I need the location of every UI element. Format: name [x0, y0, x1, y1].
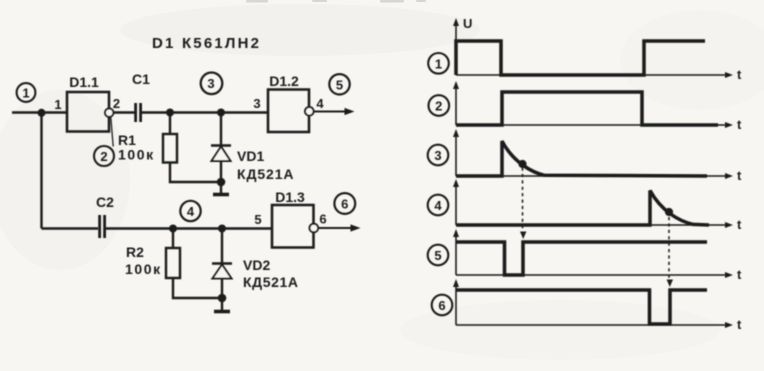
svg-text:5: 5	[254, 212, 261, 227]
wire junction to R2	[172, 229, 174, 249]
svg-text:D1.1: D1.1	[69, 74, 99, 90]
wire junction to R1	[169, 113, 171, 135]
svg-text:КД521А: КД521А	[243, 274, 299, 290]
waveform 1 time axis	[456, 67, 742, 82]
node 5	[329, 74, 349, 94]
svg-text:5: 5	[336, 77, 343, 92]
waveform 3 time axis	[456, 168, 742, 183]
wire gate D1.1 output to C1	[113, 111, 134, 113]
junction VD2 bottom	[218, 294, 227, 303]
waveform 5 time axis	[456, 267, 742, 282]
wire C1 to gate D1.2 input (net 3)	[142, 111, 268, 113]
svg-text:t: t	[737, 67, 742, 82]
capacitor C2	[96, 194, 114, 238]
svg-text:C2: C2	[96, 194, 114, 210]
svg-text:D1.3: D1.3	[275, 189, 305, 205]
svg-text:КД521А: КД521А	[237, 166, 294, 182]
resistor R2	[125, 244, 180, 278]
svg-text:3: 3	[434, 148, 441, 163]
junction VD2 top	[218, 225, 226, 233]
dashed arrow t4 from waveform 4 to waveform 6	[667, 217, 673, 287]
waveform 5 label	[428, 245, 449, 266]
resistor R1	[118, 132, 177, 163]
svg-text:3: 3	[253, 96, 260, 111]
wire C2 to gate D1.3 input (net 4)	[106, 227, 272, 229]
svg-text:2: 2	[100, 149, 107, 164]
svg-text:6: 6	[438, 298, 445, 313]
junction R1 top	[166, 109, 174, 117]
node 6	[334, 193, 355, 214]
svg-text:100к: 100к	[125, 261, 162, 277]
waveform 6 voltage axis	[453, 279, 459, 325]
svg-text:t: t	[737, 267, 742, 282]
wire output D1.3 with arrow (net 6)	[318, 224, 360, 231]
waveform 4 label	[428, 195, 449, 216]
scan smudges top edge	[246, 0, 426, 3]
waveform 6 label	[432, 295, 453, 316]
waveform 2 time axis	[456, 117, 742, 132]
svg-text:R2: R2	[126, 244, 144, 260]
junction input node	[38, 109, 46, 117]
inverter gate D1.3	[272, 189, 318, 248]
wire R2 bottom to VD2 anode	[173, 278, 222, 298]
waveform 4 voltage axis	[453, 179, 459, 225]
ground VD1	[213, 182, 229, 195]
junction R2 top	[169, 225, 177, 233]
waveform 1 voltage axis U	[453, 16, 472, 75]
svg-text:t: t	[737, 217, 742, 232]
svg-text:1: 1	[54, 97, 61, 112]
wire output D1.2 with arrow (net 5)	[314, 108, 355, 115]
waveform 6 time axis	[456, 317, 742, 332]
svg-text:1: 1	[22, 86, 29, 101]
svg-text:1: 1	[435, 56, 442, 71]
wire vertical input branch down to C2	[40, 113, 42, 229]
svg-text:U: U	[463, 16, 472, 31]
waveform 5 trace	[456, 242, 707, 275]
wire lower horizontal (input branch to C2)	[42, 227, 99, 229]
waveform 2 trace	[456, 92, 718, 125]
svg-text:4: 4	[316, 96, 324, 111]
inverter gate D1.2	[268, 73, 314, 132]
dashed arrow t2 from waveform 3 to waveform 5	[520, 168, 526, 240]
diode VD2	[212, 257, 299, 290]
svg-text:2: 2	[435, 99, 442, 114]
svg-text:VD1: VD1	[237, 148, 264, 164]
node 1	[17, 83, 36, 102]
svg-text:C1: C1	[132, 71, 150, 87]
waveform 2 voltage axis	[453, 81, 459, 125]
svg-text:2: 2	[113, 96, 120, 111]
node 3	[201, 73, 223, 95]
svg-text:5: 5	[434, 248, 441, 263]
waveform 6 trace	[456, 290, 707, 324]
svg-text:100к: 100к	[118, 147, 155, 163]
wire VD2 vertical	[221, 229, 223, 299]
waveform 3 trace with exponential decay	[456, 141, 707, 176]
inverter gate D1.1	[67, 74, 113, 132]
wire input to gate D1.1	[12, 111, 67, 113]
wire VD1 vertical	[220, 113, 222, 183]
waveform 4 trace with exponential decay	[456, 191, 709, 226]
node 2	[94, 118, 114, 167]
svg-text:6: 6	[319, 212, 326, 227]
diode VD1	[211, 146, 294, 183]
svg-text:t: t	[737, 117, 742, 132]
svg-text:VD2: VD2	[243, 257, 270, 273]
waveform 5 voltage axis	[453, 229, 459, 275]
waveform 3 sample dot	[518, 160, 526, 168]
node 4	[180, 201, 200, 221]
waveform 1 label	[428, 53, 449, 74]
junction VD1 top	[217, 109, 225, 117]
capacitor C1	[132, 71, 150, 122]
waveform 4 time axis	[456, 217, 742, 232]
svg-text:4: 4	[434, 198, 442, 213]
ground VD2	[214, 298, 230, 312]
svg-text:D1 К561ЛН2: D1 К561ЛН2	[152, 35, 261, 52]
junction VD1 bottom	[217, 178, 226, 187]
svg-text:3: 3	[207, 76, 214, 91]
waveform 1 trace	[456, 41, 705, 75]
svg-text:4: 4	[187, 204, 195, 219]
svg-text:D1.2: D1.2	[269, 73, 299, 89]
waveform 4 sample dot	[665, 208, 673, 216]
svg-text:6: 6	[341, 197, 348, 212]
svg-text:t: t	[737, 317, 742, 332]
svg-text:t: t	[737, 168, 742, 183]
waveform 3 voltage axis	[453, 129, 459, 176]
waveform 2 label	[429, 95, 450, 116]
waveform 3 label	[428, 145, 449, 166]
wire R1 bottom to VD1 anode	[170, 163, 221, 183]
